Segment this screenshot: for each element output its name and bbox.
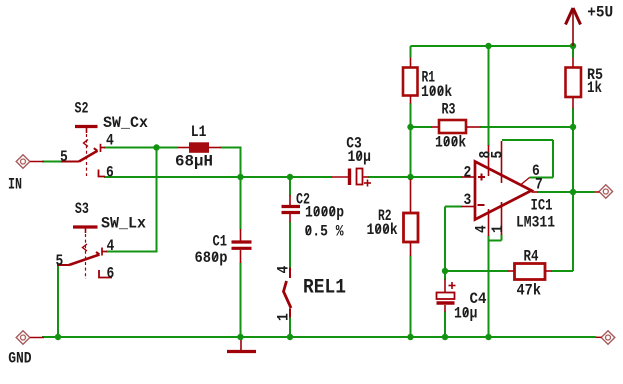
svg-text:0.5 %: 0.5 % [305,223,345,241]
svg-text:1k: 1k [587,79,602,97]
svg-text:LM311: LM311 [516,214,555,232]
svg-text:100k: 100k [435,134,466,152]
svg-text:4: 4 [473,225,491,233]
svg-text:7: 7 [535,176,543,194]
svg-text:4: 4 [106,132,114,150]
svg-text:L1: L1 [191,123,207,141]
svg-text:R4: R4 [524,248,539,266]
svg-text:1: 1 [275,313,293,321]
svg-text:68µH: 68µH [175,153,213,171]
svg-text:100k: 100k [421,83,452,101]
svg-text:GND: GND [8,350,31,368]
svg-text:47k: 47k [517,282,542,300]
svg-text:1: 1 [489,225,507,233]
svg-text:6: 6 [106,164,114,182]
svg-text:5: 5 [56,252,64,270]
svg-text:IC1: IC1 [531,197,553,215]
svg-text:3: 3 [464,191,472,209]
svg-text:IN: IN [8,176,22,194]
svg-text:+5U: +5U [587,4,613,22]
svg-text:4: 4 [275,266,293,274]
svg-text:5: 5 [60,148,68,166]
svg-text:5: 5 [489,151,507,159]
svg-text:REL1: REL1 [303,277,346,300]
svg-text:2: 2 [464,164,472,182]
svg-text:SW_Cx: SW_Cx [103,114,148,132]
svg-text:100k: 100k [367,221,398,239]
svg-text:680p: 680p [195,249,228,267]
svg-text:R3: R3 [442,101,456,119]
svg-text:SW_Lx: SW_Lx [101,215,146,233]
svg-text:S3: S3 [75,200,89,218]
svg-text:4: 4 [107,237,115,255]
svg-text:S2: S2 [75,100,89,118]
svg-text:C1: C1 [213,233,228,251]
svg-text:6: 6 [107,265,115,283]
